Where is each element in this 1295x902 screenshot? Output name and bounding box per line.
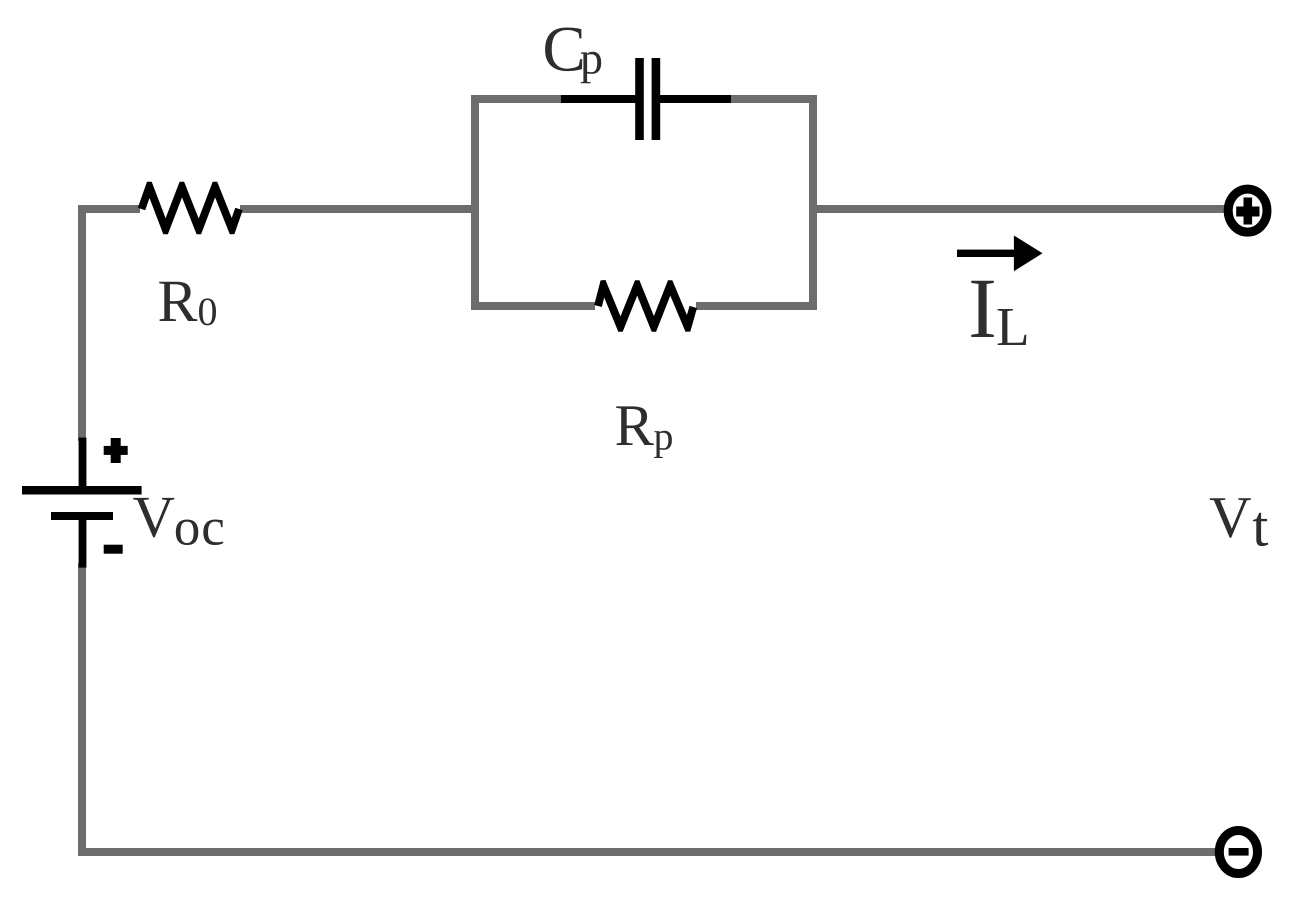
wire: parallel RC loop box <box>475 99 813 306</box>
wire: top segment between R0 and RC box <box>240 205 476 213</box>
arrow: load current direction <box>957 236 1043 272</box>
terminal - (circled minus) <box>1219 831 1257 874</box>
battery polarity - sign <box>104 545 123 554</box>
label Voc <box>133 498 223 545</box>
resistor R0 <box>138 182 243 235</box>
resistor Rp <box>595 300 696 312</box>
label Rp <box>616 406 672 458</box>
terminal + (circled plus) <box>1228 189 1267 232</box>
label R0 <box>159 282 216 326</box>
battery Voc <box>22 438 142 568</box>
label IL <box>971 281 1026 345</box>
wire: top segment between RC box and + terminal <box>813 205 1226 213</box>
label Vt <box>1210 498 1268 546</box>
wire: left vertical upper + top-left horizontal segment <box>82 209 140 441</box>
wire: left vertical lower + bottom horizontal to - terminal <box>82 563 1217 852</box>
battery polarity + sign <box>104 438 128 463</box>
capacitor Cp <box>561 58 731 140</box>
label Cp <box>545 28 601 84</box>
